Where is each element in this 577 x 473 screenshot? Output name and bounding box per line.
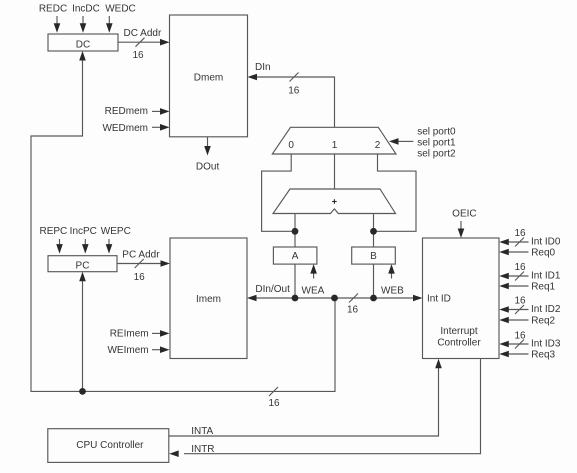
svg-text:Int ID3: Int ID3 [531,339,561,350]
svg-text:Imem: Imem [196,294,221,305]
svg-text:OEIC: OEIC [452,208,476,219]
svg-text:B: B [370,251,377,262]
svg-text:16: 16 [268,398,280,409]
svg-text:Int ID2: Int ID2 [531,304,561,315]
svg-text:A: A [292,251,299,262]
svg-text:16: 16 [134,272,146,283]
svg-text:Req2: Req2 [531,315,555,326]
svg-text:DOut: DOut [196,162,220,173]
svg-text:16: 16 [514,295,526,306]
svg-text:Req3: Req3 [531,349,555,360]
svg-text:16: 16 [132,50,144,61]
svg-text:REPC: REPC [40,226,68,237]
svg-text:1: 1 [332,140,338,151]
svg-text:DC: DC [76,40,90,51]
svg-text:Int ID0: Int ID0 [531,237,561,248]
svg-text:INTR: INTR [191,444,214,455]
svg-text:REDmem: REDmem [105,106,148,117]
svg-text:16: 16 [514,330,526,341]
svg-text:sel port0: sel port0 [417,127,456,138]
svg-text:0: 0 [288,140,294,151]
svg-text:Int ID1: Int ID1 [531,271,561,282]
svg-text:WEDC: WEDC [105,4,136,15]
svg-text:16: 16 [347,305,359,316]
svg-text:REDC: REDC [39,4,67,15]
svg-text:Req1: Req1 [531,281,555,292]
svg-text:WEA: WEA [302,286,325,297]
svg-text:DC Addr: DC Addr [124,28,162,39]
svg-text:Req0: Req0 [531,247,555,258]
svg-text:WEPC: WEPC [101,226,131,237]
svg-text:WEDmem: WEDmem [102,123,148,134]
svg-text:IncPC: IncPC [70,226,97,237]
svg-text:DIn/Out: DIn/Out [255,284,290,295]
svg-text:INTA: INTA [191,426,213,437]
svg-text:PC Addr: PC Addr [122,250,160,261]
svg-text:WEB: WEB [381,286,404,297]
svg-text:sel port2: sel port2 [417,149,456,160]
svg-text:Int ID: Int ID [427,294,451,305]
svg-text:IncDC: IncDC [72,4,100,15]
svg-text:PC: PC [76,260,90,271]
svg-text:DIn: DIn [255,62,271,73]
svg-text:16: 16 [514,228,526,239]
svg-text:WEImem: WEImem [107,345,148,356]
svg-text:2: 2 [375,140,381,151]
svg-text:Dmem: Dmem [194,73,223,84]
svg-text:REImem: REImem [110,329,149,340]
svg-text:Controller: Controller [437,338,481,349]
svg-text:16: 16 [288,85,300,96]
svg-text:Interrupt: Interrupt [440,326,477,337]
svg-text:16: 16 [514,262,526,273]
svg-text:sel port1: sel port1 [417,138,456,149]
svg-text:CPU Controller: CPU Controller [76,440,144,451]
